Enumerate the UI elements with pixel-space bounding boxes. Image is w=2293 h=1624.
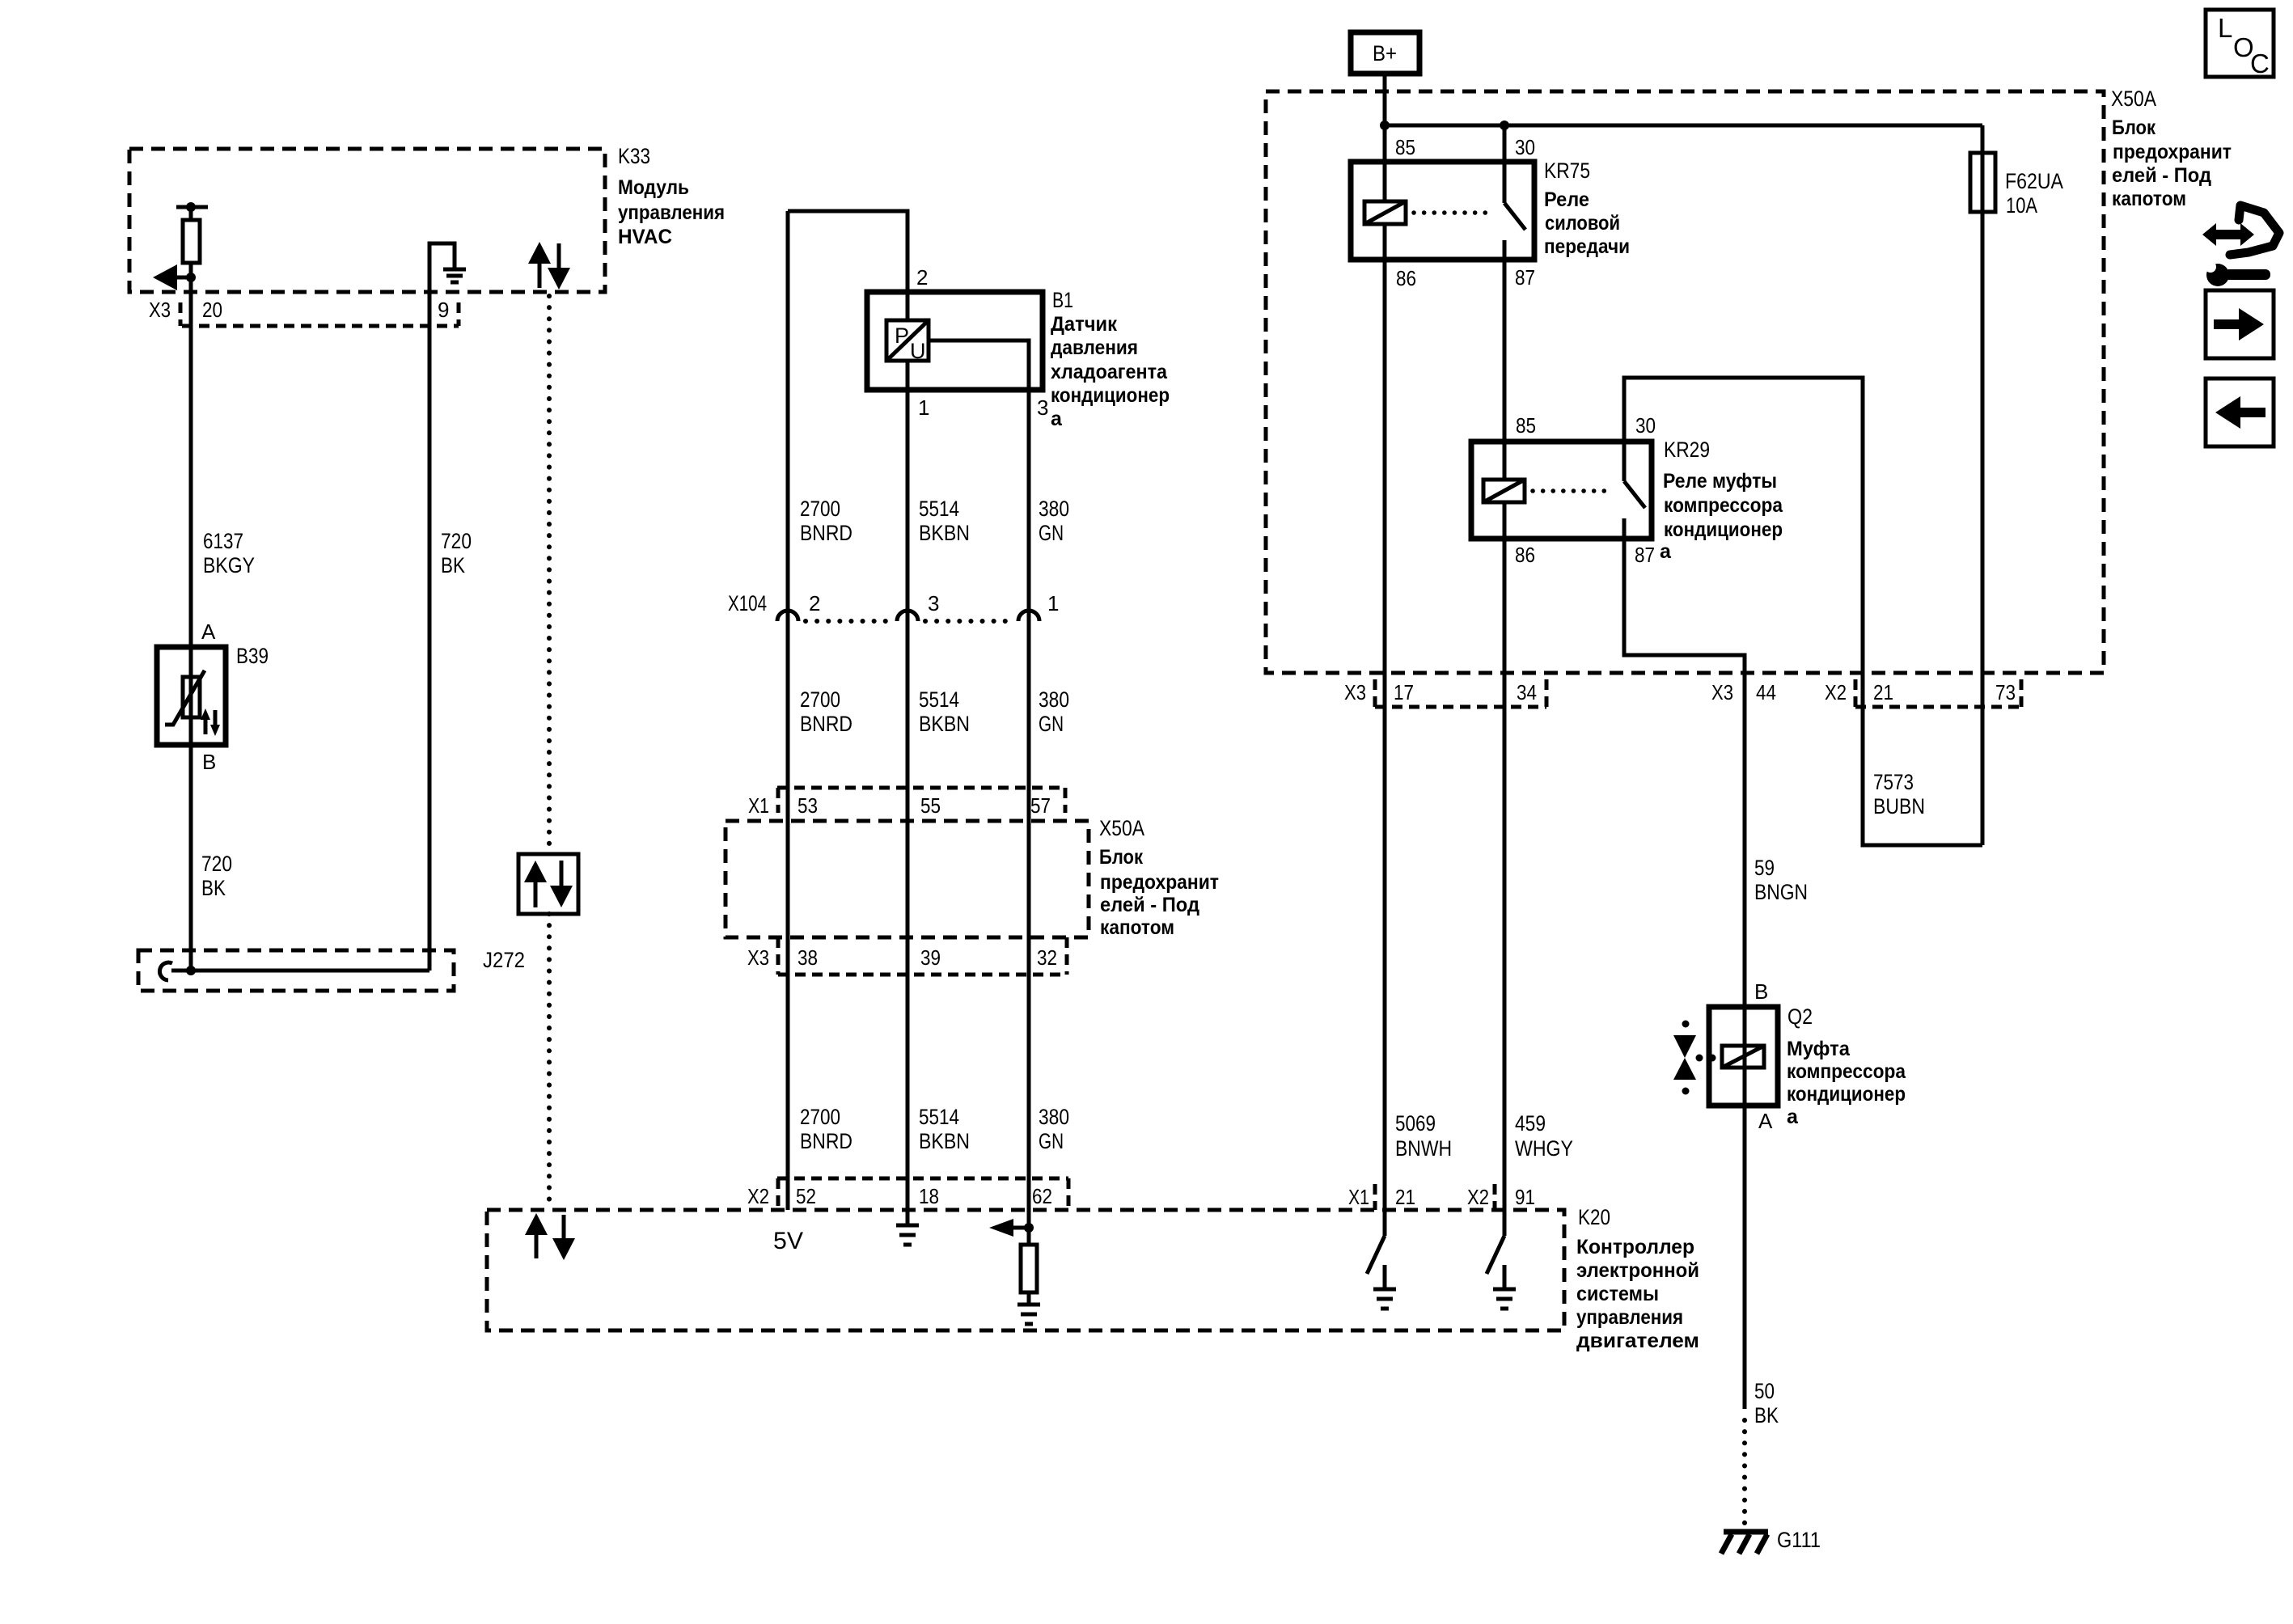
svg-text:62: 62: [1032, 1184, 1052, 1208]
svg-text:44: 44: [1756, 680, 1776, 704]
svg-text:Контроллер: Контроллер: [1576, 1236, 1694, 1258]
svg-text:86: 86: [1515, 543, 1535, 567]
svg-text:BK: BK: [1754, 1403, 1779, 1427]
svg-text:K20: K20: [1578, 1205, 1610, 1229]
svg-text:X3: X3: [747, 945, 769, 970]
svg-text:18: 18: [919, 1184, 939, 1208]
svg-text:B39: B39: [236, 644, 269, 668]
svg-text:GN: GN: [1039, 521, 1064, 545]
svg-text:L: L: [2218, 13, 2232, 43]
svg-text:электронной: электронной: [1576, 1259, 1699, 1282]
svg-text:C: C: [2250, 49, 2270, 78]
svg-text:2700: 2700: [800, 687, 840, 712]
svg-text:GN: GN: [1039, 712, 1064, 736]
svg-text:459: 459: [1515, 1111, 1546, 1136]
svg-text:21: 21: [1873, 680, 1893, 704]
svg-text:X3: X3: [1711, 680, 1733, 704]
svg-text:а: а: [1660, 540, 1672, 563]
svg-text:P: P: [895, 324, 909, 348]
svg-text:2700: 2700: [800, 1105, 840, 1129]
svg-text:B+: B+: [1373, 41, 1397, 66]
svg-text:X2: X2: [747, 1184, 769, 1208]
svg-text:J272: J272: [483, 948, 525, 972]
svg-text:Модуль: Модуль: [618, 176, 689, 199]
svg-text:BKBN: BKBN: [919, 521, 970, 545]
svg-text:капотом: капотом: [1100, 916, 1174, 939]
svg-text:F62UA: F62UA: [2005, 169, 2063, 193]
svg-text:WHGY: WHGY: [1515, 1136, 1573, 1161]
svg-text:73: 73: [1995, 680, 2016, 704]
svg-text:капотом: капотом: [2112, 188, 2186, 210]
svg-text:85: 85: [1395, 135, 1415, 159]
svg-text:GN: GN: [1039, 1129, 1064, 1153]
svg-text:21: 21: [1395, 1185, 1415, 1209]
svg-text:предохранит: предохранит: [2113, 141, 2232, 163]
svg-text:BK: BK: [201, 876, 226, 900]
svg-text:91: 91: [1515, 1185, 1535, 1209]
svg-text:Муфта: Муфта: [1787, 1038, 1851, 1060]
svg-text:U: U: [910, 339, 926, 363]
svg-text:HVAC: HVAC: [618, 226, 672, 248]
svg-text:17: 17: [1394, 680, 1414, 704]
svg-text:720: 720: [441, 529, 472, 553]
svg-text:X1: X1: [1348, 1185, 1369, 1209]
svg-text:5069: 5069: [1395, 1111, 1436, 1136]
svg-text:кондиционер: кондиционер: [1664, 518, 1783, 541]
svg-text:кондиционер: кондиционер: [1051, 384, 1170, 407]
svg-text:KR75: KR75: [1544, 159, 1590, 183]
svg-text:B: B: [202, 750, 216, 774]
svg-text:A: A: [201, 620, 216, 644]
svg-text:87: 87: [1515, 265, 1535, 290]
svg-text:BKBN: BKBN: [919, 712, 970, 736]
svg-text:3: 3: [928, 591, 939, 615]
svg-text:системы: системы: [1576, 1283, 1659, 1305]
svg-text:10A: 10A: [2006, 193, 2037, 218]
svg-text:59: 59: [1754, 856, 1775, 880]
svg-text:X50A: X50A: [2111, 87, 2156, 111]
svg-text:1: 1: [1047, 591, 1059, 615]
svg-text:86: 86: [1396, 266, 1416, 290]
svg-text:2: 2: [916, 265, 928, 290]
svg-text:G111: G111: [1777, 1528, 1821, 1552]
svg-text:BNWH: BNWH: [1395, 1136, 1452, 1161]
svg-text:9: 9: [438, 298, 449, 322]
svg-text:B: B: [1754, 979, 1768, 1004]
svg-text:38: 38: [797, 945, 818, 970]
svg-text:1: 1: [918, 395, 929, 420]
svg-text:39: 39: [920, 945, 941, 970]
svg-text:BNGN: BNGN: [1754, 880, 1808, 904]
svg-text:720: 720: [201, 852, 232, 876]
svg-text:передачи: передачи: [1544, 235, 1630, 258]
svg-text:X104: X104: [728, 591, 767, 615]
svg-text:силовой: силовой: [1545, 212, 1620, 235]
svg-text:Q2: Q2: [1787, 1004, 1813, 1029]
svg-text:BKGY: BKGY: [203, 553, 255, 577]
svg-text:53: 53: [797, 793, 818, 818]
svg-text:5514: 5514: [919, 687, 959, 712]
svg-text:2700: 2700: [800, 497, 840, 521]
svg-text:BKBN: BKBN: [919, 1129, 970, 1153]
svg-text:7573: 7573: [1873, 770, 1914, 794]
svg-text:BNRD: BNRD: [800, 712, 852, 736]
svg-text:Датчик: Датчик: [1051, 313, 1117, 336]
svg-text:управления: управления: [618, 201, 725, 224]
svg-text:52: 52: [796, 1184, 816, 1208]
svg-text:30: 30: [1635, 413, 1656, 438]
svg-text:BUBN: BUBN: [1873, 794, 1925, 818]
svg-text:а: а: [1051, 408, 1063, 430]
svg-text:6137: 6137: [203, 529, 243, 553]
svg-text:управления: управления: [1576, 1306, 1683, 1329]
svg-text:2: 2: [809, 591, 820, 615]
svg-text:Блок: Блок: [2112, 116, 2156, 139]
svg-text:3: 3: [1037, 395, 1048, 420]
svg-text:компрессора: компрессора: [1787, 1060, 1906, 1083]
svg-text:B1: B1: [1052, 288, 1073, 312]
svg-text:20: 20: [202, 298, 222, 322]
svg-text:X3: X3: [1344, 680, 1366, 704]
svg-text:380: 380: [1039, 497, 1069, 521]
svg-text:32: 32: [1037, 945, 1057, 970]
svg-text:380: 380: [1039, 1105, 1069, 1129]
svg-text:предохранит: предохранит: [1100, 871, 1219, 894]
svg-text:X3: X3: [149, 298, 171, 322]
svg-text:X1: X1: [748, 793, 769, 818]
svg-text:5514: 5514: [919, 497, 959, 521]
svg-text:X2: X2: [1825, 680, 1847, 704]
svg-text:Реле муфты: Реле муфты: [1663, 470, 1777, 493]
svg-text:55: 55: [920, 793, 941, 818]
svg-text:елей - Под: елей - Под: [1100, 894, 1199, 916]
svg-text:87: 87: [1635, 543, 1655, 567]
svg-text:компрессора: компрессора: [1664, 494, 1783, 517]
svg-text:K33: K33: [618, 144, 650, 168]
svg-text:X2: X2: [1467, 1185, 1489, 1209]
svg-text:34: 34: [1517, 680, 1537, 704]
svg-text:BNRD: BNRD: [800, 521, 852, 545]
svg-text:57: 57: [1030, 793, 1051, 818]
svg-text:хладоагента: хладоагента: [1051, 361, 1168, 383]
svg-text:давления: давления: [1051, 336, 1138, 359]
svg-text:BNRD: BNRD: [800, 1129, 852, 1153]
svg-text:X50A: X50A: [1099, 816, 1144, 840]
svg-text:50: 50: [1754, 1379, 1775, 1403]
svg-text:Блок: Блок: [1099, 846, 1143, 869]
svg-text:85: 85: [1516, 413, 1536, 438]
svg-text:KR29: KR29: [1664, 438, 1710, 462]
svg-text:кондиционер: кондиционер: [1787, 1083, 1906, 1106]
svg-text:5514: 5514: [919, 1105, 959, 1129]
svg-text:30: 30: [1515, 135, 1535, 159]
svg-text:5V: 5V: [773, 1228, 803, 1254]
svg-text:двигателем: двигателем: [1576, 1330, 1699, 1352]
svg-text:A: A: [1758, 1109, 1773, 1133]
svg-text:BK: BK: [441, 553, 465, 577]
svg-text:Реле: Реле: [1544, 188, 1589, 211]
svg-text:а: а: [1787, 1106, 1799, 1128]
svg-text:380: 380: [1039, 687, 1069, 712]
svg-text:елей - Под: елей - Под: [2112, 164, 2211, 187]
